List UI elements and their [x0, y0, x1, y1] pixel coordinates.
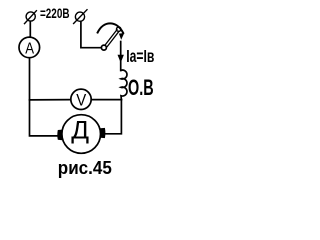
- brush right: [100, 128, 105, 138]
- svg-text:рис.45: рис.45: [58, 158, 112, 178]
- terminal right: [74, 10, 87, 24]
- inductor O.V field winding: [121, 70, 127, 100]
- wire: right terminal down and to switch: [81, 22, 101, 48]
- wire: switch to coil with current arrow: [120, 42, 122, 71]
- switch hinge: [101, 45, 106, 50]
- ammeter A: [19, 37, 40, 58]
- brush left: [57, 130, 62, 141]
- svg-text:Iа=Iв: Iа=Iв: [126, 46, 154, 66]
- wire: left rail to voltmeter: [30, 99, 71, 101]
- svg-text:А: А: [25, 40, 34, 57]
- current arrow Ia: [118, 55, 124, 63]
- voltmeter V: [71, 89, 91, 109]
- svg-text:Д: Д: [71, 117, 89, 145]
- svg-text:О.В: О.В: [128, 75, 154, 100]
- switch blade: [105, 30, 119, 47]
- wire: left rail vertical and bottom to left brush: [30, 58, 58, 136]
- svg-text:=220В: =220В: [40, 5, 70, 21]
- svg-text:V: V: [76, 91, 86, 109]
- wire: voltmeter to right rail: [91, 99, 121, 101]
- wire: left terminal to ammeter: [29, 22, 31, 37]
- wire: right rail vertical and bottom to right brush: [105, 100, 121, 134]
- terminal left: [25, 11, 37, 24]
- motor Д: [62, 115, 101, 154]
- switch blade tip circle: [117, 27, 121, 31]
- switch motion arc arrow: [98, 23, 125, 39]
